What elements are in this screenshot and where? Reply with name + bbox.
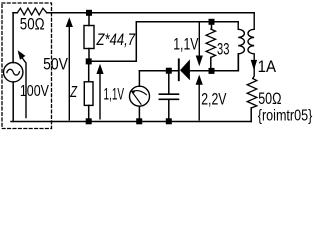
meter M1 needle [132,91,146,105]
1A current arrow [251,60,257,70]
wire top rail [13,12,254,14]
resistor Z leads [88,61,90,121]
wire source bottom lead [12,82,14,122]
diode D1 triangle [180,59,190,80]
wire middle rail [140,54,239,71]
resistor 50ohm (source internal) zigzag [17,8,46,15]
svg-text:2,2V: 2,2V [201,90,227,109]
1,1V right voltage arrow (down) [198,22,200,56]
source V1 circle [4,62,23,81]
wire source top lead [12,13,14,63]
node dot 33-resistor top [209,19,215,25]
diode D1 cathode bar [178,59,180,80]
node dot Z bottom [86,118,92,124]
svg-text:Z*44,7: Z*44,7 [96,31,136,49]
100V voltage arrow [19,54,26,118]
wire bottom rail [11,121,251,123]
resistor Z*44,7 leads [88,13,90,62]
svg-text:1,1V: 1,1V [104,85,125,103]
dashed source box [2,3,52,129]
resistor Z*44,7 body [84,26,94,49]
resistor 50ohm right zigzag [247,79,257,109]
svg-text:50V: 50V [43,54,68,73]
meter M1 circle [130,86,150,106]
wire node B to coil top [89,22,239,62]
resistor Z body [84,82,93,106]
svg-text:50Ω: 50Ω [20,14,45,33]
node dot capacitor top [166,68,172,74]
wire 50ohm bottom lead [250,108,252,122]
transformer right coil [248,13,254,79]
svg-text:1A: 1A [258,57,277,76]
capacitor plates [159,94,178,99]
transformer left coil [238,22,244,71]
2,2V voltage arrow (up) [198,84,200,120]
capacitor leads [168,71,170,122]
resistor 33 zigzag [206,29,215,57]
node dot capacitor bottom [166,118,172,124]
svg-text:{roimtr05}: {roimtr05} [258,108,313,125]
node B dot [86,58,92,64]
svg-text:Z: Z [70,84,78,101]
1,1V left voltage arrow [99,74,101,119]
svg-text:50Ω: 50Ω [258,90,281,108]
source sine symbol [7,69,20,75]
50V voltage arrow [68,27,70,120]
svg-text:100V: 100V [20,83,50,100]
svg-text:1,1V: 1,1V [173,36,198,54]
node dot top rail [86,10,92,16]
node dot meter bottom [136,118,142,124]
svg-text:33: 33 [217,40,229,59]
resistor 33 leads [210,22,213,71]
node dot diode right / 33 bottom [209,68,215,74]
meter M1 leads [138,71,140,122]
